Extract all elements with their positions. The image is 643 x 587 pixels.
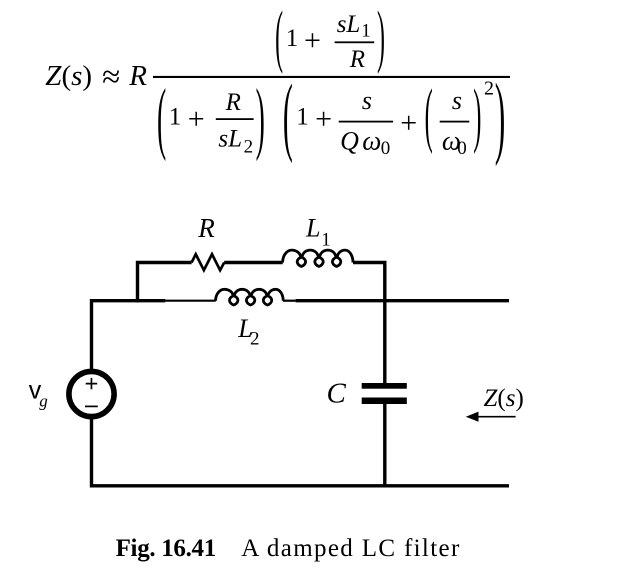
- svg-text:0: 0: [381, 138, 391, 159]
- label vg: [29, 376, 48, 410]
- svg-text:): ): [473, 74, 481, 154]
- source Vg minus sign: [85, 405, 98, 407]
- svg-text:(: (: [275, 0, 283, 75]
- wire: between R and L1: [224, 261, 283, 264]
- svg-text:A damped LC filter: A damped LC filter: [241, 535, 460, 562]
- wire: stub + top branch left segment: [138, 263, 192, 303]
- wire: capacitor bottom lead: [383, 404, 386, 486]
- svg-text:1: 1: [321, 229, 331, 250]
- svg-text:2: 2: [250, 329, 260, 350]
- svg-text:): ): [495, 64, 506, 167]
- wire: top branch right + right vertical down to capacitor: [353, 263, 385, 384]
- svg-text:C: C: [327, 378, 347, 410]
- svg-text:): ): [377, 0, 385, 75]
- svg-text:s: s: [362, 86, 372, 115]
- wire: middle rail right segment to open terminal: [296, 299, 509, 302]
- svg-text:Z(s): Z(s): [484, 385, 524, 412]
- svg-text:2: 2: [244, 137, 254, 158]
- svg-text:Fig. 16.41: Fig. 16.41: [116, 535, 217, 562]
- svg-text:+: +: [188, 103, 205, 136]
- svg-text:s: s: [452, 86, 462, 115]
- label L2: [237, 314, 259, 350]
- wire: thin lead left of L2: [165, 300, 215, 302]
- svg-text:+: +: [400, 107, 417, 140]
- svg-text:(: (: [283, 68, 293, 164]
- svg-text:0: 0: [457, 138, 467, 159]
- svg-text:1: 1: [169, 104, 182, 131]
- formula numerator: ( 1 + sL1/R ): [275, 0, 385, 75]
- label L1: [305, 214, 331, 251]
- arrow for Z(s) pointing left: [466, 412, 516, 422]
- formula: main fraction bar: [153, 76, 510, 78]
- svg-text:R: R: [197, 213, 215, 243]
- capacitor C bottom plate: [362, 398, 407, 405]
- svg-text:1: 1: [286, 25, 299, 52]
- inductor L2 coil: [216, 289, 284, 305]
- svg-text:sL: sL: [337, 11, 361, 38]
- svg-text:≈: ≈: [102, 59, 120, 95]
- svg-text:sL: sL: [218, 126, 242, 153]
- svg-text:R: R: [128, 60, 147, 92]
- svg-text:2: 2: [484, 78, 494, 100]
- svg-text:1: 1: [361, 20, 371, 41]
- source Vg plus sign: [86, 378, 98, 389]
- svg-text:ω: ω: [362, 126, 381, 156]
- svg-text:+: +: [304, 24, 321, 57]
- formula denominator: ( 1 + R/sL2 ) ( 1 + s/(Q w0) + (s/w0)^2 ): [157, 64, 505, 167]
- formula: left-hand side Z(s) = R: [45, 59, 147, 95]
- caption: Fig. 16.41 A damped LC filter: [116, 535, 460, 562]
- source Vg circle: [69, 371, 114, 416]
- svg-text:Z(s): Z(s): [45, 60, 92, 92]
- svg-text:R: R: [349, 46, 365, 73]
- capacitor C top plate: [362, 383, 407, 389]
- svg-text:): ): [256, 73, 265, 163]
- wire: left vertical + middle rail thick left segment: [92, 301, 166, 370]
- svg-text:L: L: [305, 214, 320, 243]
- svg-text:Q: Q: [340, 127, 359, 156]
- inductor L1 coil: [283, 250, 353, 266]
- svg-text:(: (: [157, 73, 166, 163]
- wire: thin lead right of L2: [283, 300, 296, 302]
- svg-text:g: g: [39, 391, 48, 410]
- svg-text:+: +: [315, 103, 332, 136]
- svg-text:R: R: [225, 89, 241, 116]
- resistor R zigzag: [192, 254, 225, 270]
- svg-text:1: 1: [296, 104, 309, 131]
- wire: bottom rail with left vertical: [92, 418, 510, 486]
- svg-text:(: (: [425, 74, 433, 154]
